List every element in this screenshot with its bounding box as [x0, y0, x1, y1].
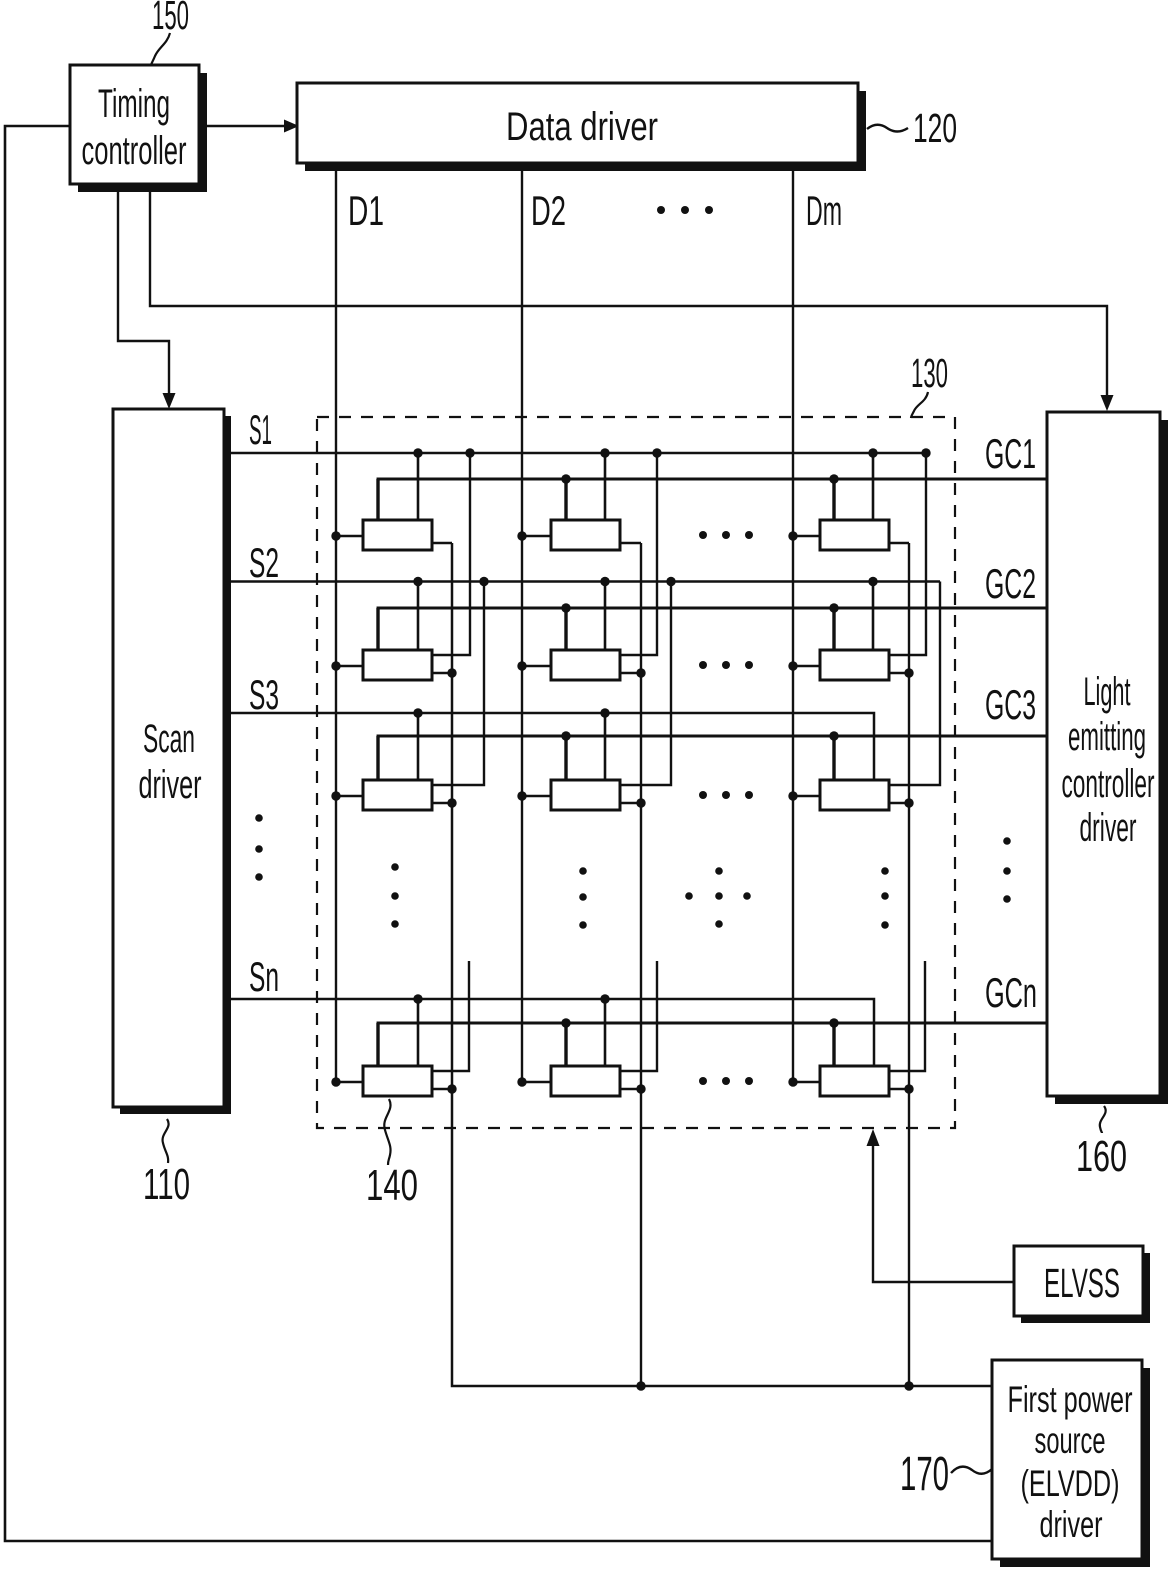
block: First power source (ELVDD) driver (170): [992, 1360, 1150, 1567]
ellipsis: pixel column 2 continues: [579, 867, 587, 929]
wire: emission control line GC1 (left end bends down into pixel): [378, 479, 1047, 520]
svg-text:110: 110: [143, 1160, 190, 1209]
block: ELVSS supply: [1014, 1246, 1150, 1323]
leader: 150: [151, 33, 170, 65]
svg-text:160: 160: [1076, 1132, 1127, 1181]
wire: emission control line GC3 (left end bends down into pixel): [378, 736, 1047, 780]
pixel circuit 140 (row 1, col 3): [788, 448, 909, 550]
ellipsis: pixel column 3 continues: [881, 867, 889, 929]
block: Scan driver (110): [113, 409, 231, 1114]
svg-text:GC1: GC1: [985, 430, 1036, 477]
svg-text:emitting: emitting: [1068, 715, 1146, 759]
leader: 160: [1100, 1106, 1106, 1133]
pixel circuit 140 (row n, col 3): [788, 961, 925, 1096]
wire: scan line S1: [224, 452, 926, 455]
svg-text:D1: D1: [348, 187, 384, 234]
pixel circuit 140 (row 3, col 3): [788, 582, 940, 811]
svg-text:140: 140: [366, 1161, 418, 1210]
wire: ELVSS to pixel portion with arrow: [867, 1129, 1015, 1282]
svg-text:GC2: GC2: [985, 560, 1036, 607]
svg-text:S2: S2: [249, 539, 279, 586]
block: Timing controller (150): [70, 65, 207, 192]
wire: timing controller to data driver with arrow: [200, 120, 299, 133]
svg-text:driver: driver: [1040, 1504, 1103, 1545]
wire: emission control line GCn (left end bends down into pixel): [378, 1023, 1047, 1066]
svg-text:170: 170: [900, 1448, 949, 1501]
svg-text:Light: Light: [1084, 670, 1131, 714]
pixel circuit 140 (row 1, col 2): [517, 448, 641, 550]
svg-text:S1: S1: [249, 406, 272, 453]
ellipsis: GC lines continue: [1003, 837, 1011, 903]
leader: 140: [384, 1099, 390, 1165]
leader: 130: [911, 392, 928, 418]
svg-text:GC3: GC3: [985, 681, 1036, 728]
node: junction col2 on ELVDD rail: [636, 1381, 645, 1390]
ellipsis: pixel row 2 continues: [699, 661, 753, 669]
svg-text:150: 150: [152, 0, 189, 38]
block: Data driver (120): [297, 83, 866, 171]
ellipsis: pixel column 1 continues: [391, 863, 399, 928]
svg-text:Sn: Sn: [249, 953, 279, 1000]
pixel circuit 140 (row n, col 2): [517, 961, 657, 1096]
svg-text:Data driver: Data driver: [506, 105, 658, 149]
wire: feedback from timing controller around left/bottom to ELVDD driver: [5, 126, 992, 1541]
wire: scan line Sn (turns down into pixel): [224, 999, 874, 1066]
ellipsis: pixel row 3 continues: [699, 791, 753, 799]
wire: timing controller down to scan driver with arrow: [118, 186, 176, 409]
svg-text:controller: controller: [82, 129, 187, 173]
leader: 110: [163, 1119, 169, 1163]
pixel circuit 140 (row 3, col 1): [331, 577, 488, 810]
ellipsis: pixel row 1 continues: [699, 531, 753, 539]
svg-text:source: source: [1035, 1420, 1106, 1461]
svg-text:First power: First power: [1008, 1379, 1133, 1420]
pixel circuit 140 (row 1, col 1): [331, 448, 452, 550]
wire: data line Dm: [792, 163, 794, 1082]
svg-text:130: 130: [911, 350, 948, 396]
svg-text:Scan: Scan: [143, 717, 195, 761]
ellipsis: scan lines continue: [255, 814, 263, 881]
ellipsis: pixel row n continues: [699, 1077, 753, 1085]
wire: scan line S3 (turns down into pixel): [224, 713, 874, 780]
svg-text:120: 120: [913, 105, 957, 151]
wire: scan line S2: [224, 580, 940, 583]
pixel circuit 140 (row n, col 1): [331, 961, 469, 1096]
wire: timing controller across to light emitting controller driver with arrow: [150, 186, 1114, 411]
wire: emission control line GC2 (left end bends down into pixel): [378, 608, 1047, 650]
block: Light emitting controller driver (160): [1047, 412, 1168, 1104]
wire: data line D1: [335, 163, 337, 1082]
pixel circuit 140 (row 3, col 2): [517, 577, 675, 810]
ellipsis between D2 and Dm: [657, 206, 713, 214]
pixel circuit 140 (row 2, col 1): [331, 448, 474, 680]
wire: ELVDD column line 2: [640, 543, 642, 1386]
node: junction col3 on ELVDD rail: [904, 1381, 913, 1390]
pixel circuit 140 (row 2, col 3): [788, 448, 930, 680]
svg-text:driver: driver: [1080, 806, 1137, 850]
wire: ELVDD column line 1: [452, 543, 992, 1386]
svg-text:(ELVDD): (ELVDD): [1021, 1463, 1120, 1504]
leader: 120 (tilde): [867, 125, 908, 132]
svg-text:D2: D2: [531, 187, 566, 234]
wire: data line D2: [521, 163, 523, 1082]
svg-text:GCn: GCn: [985, 969, 1037, 1016]
svg-text:ELVSS: ELVSS: [1044, 1260, 1120, 1306]
ellipsis: pixel array center: [685, 867, 751, 928]
svg-text:Dm: Dm: [806, 187, 842, 234]
pixel portion 130 (dashed boundary): [317, 417, 955, 1128]
pixel circuit 140 (row 2, col 2): [517, 448, 661, 680]
svg-text:driver: driver: [139, 763, 202, 807]
svg-text:S3: S3: [249, 671, 279, 718]
wire: ELVDD column line 3: [908, 543, 910, 1386]
svg-text:Timing: Timing: [98, 82, 170, 126]
leader: 170 (tilde): [951, 1467, 992, 1474]
svg-text:controller: controller: [1062, 762, 1155, 806]
